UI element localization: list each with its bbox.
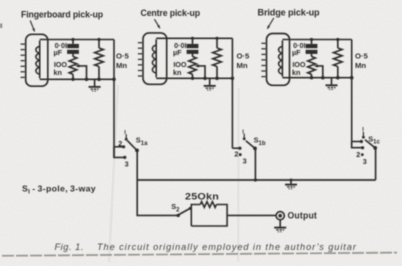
- svg-text:Mn: Mn: [116, 61, 127, 70]
- svg-text:2: 2: [118, 139, 122, 148]
- resistor 250k with bypass loop: [191, 202, 227, 226]
- svg-text:Fig. 1.: Fig. 1.: [55, 242, 84, 252]
- Centre pickup body (rounded rect): [143, 33, 167, 84]
- wire: top rail Centre: [156, 37, 232, 39]
- switch S2: [177, 207, 192, 217]
- svg-text:O·5: O·5: [116, 51, 130, 60]
- arrow to Bridge pickup: [267, 18, 274, 29]
- svg-text:2: 2: [234, 150, 238, 159]
- svg-text:Bridge pick-up: Bridge pick-up: [258, 7, 321, 17]
- potentiometer 100k (Fingerboard): [69, 54, 77, 80]
- svg-text:µF: µF: [54, 48, 63, 57]
- pot wiper arm (Bridge): [314, 64, 323, 78]
- svg-text:3: 3: [363, 157, 367, 166]
- junction: bottom rail to feed (Centre): [231, 77, 235, 81]
- potentiometer 100k (Centre): [189, 54, 197, 79]
- arrow to Centre pickup: [154, 19, 160, 28]
- svg-text:Fingerboard pick-up: Fingerboard pick-up: [21, 10, 104, 20]
- wire: top rail Fingerboard: [40, 39, 114, 41]
- svg-text:2: 2: [356, 150, 360, 159]
- switch S1c: [352, 132, 377, 150]
- svg-text:kn: kn: [173, 68, 181, 77]
- wire: top rail Bridge: [282, 39, 351, 41]
- svg-text:O·5: O·5: [237, 51, 251, 60]
- junction: bus ground tap: [290, 179, 293, 182]
- svg-text:kn: kn: [292, 68, 300, 77]
- capacitor 0.01uF (Fingerboard): [67, 40, 79, 54]
- wire: pole drop S1a: [136, 150, 138, 180]
- contact dot 2 (S1c): [361, 153, 364, 156]
- svg-text:µF: µF: [292, 48, 301, 57]
- junction: bottom rail to feed (Fingerboard): [112, 78, 116, 82]
- ground Centre: [204, 78, 216, 90]
- potentiometer 100k (Bridge): [308, 54, 316, 78]
- wire: vertical feed to switch (Bridge): [351, 40, 353, 148]
- scan smudge left edge: [0, 24, 2, 29]
- wire: pole drop S1c: [375, 148, 377, 180]
- junction: bottom rail to feed (Bridge): [350, 76, 354, 80]
- Fingerboard pickup body (rounded rect): [26, 34, 48, 86]
- Centre pickup pole pieces: [138, 43, 142, 76]
- svg-text:Mn: Mn: [237, 61, 248, 70]
- coil L (Centre): [152, 39, 156, 77]
- junction dots (Fingerboard): [71, 38, 100, 81]
- pot wiper arm (Fingerboard): [75, 64, 86, 79]
- wire: pole drop S1b: [254, 148, 256, 180]
- capacitor 0.01uF (Centre): [187, 38, 199, 54]
- svg-text:25Okn: 25Okn: [185, 192, 219, 202]
- resistor 0.5M (Fingerboard): [95, 40, 104, 80]
- arrow to Fingerboard pickup: [30, 21, 34, 32]
- junction: S1b pole to bus: [254, 178, 257, 181]
- ground bus: [285, 180, 297, 189]
- switch S1b: [232, 134, 257, 157]
- svg-text:The circuit originally employe: The circuit originally employed in the a…: [97, 242, 357, 252]
- Bridge pickup body (rounded rect): [267, 34, 290, 86]
- bottom rule: [2, 253, 397, 256]
- Fingerboard pickup pole pieces: [21, 44, 25, 77]
- ground Fingerboard: [89, 79, 101, 91]
- output jack: [276, 212, 284, 220]
- wire: bottom rail Centre: [156, 77, 232, 79]
- junction dots (Bridge): [310, 38, 340, 80]
- coil L (Fingerboard): [36, 41, 40, 79]
- svg-text:O·5: O·5: [355, 51, 369, 60]
- wire: bottom rail Bridge: [282, 77, 351, 79]
- pot wiper arm (Centre): [195, 64, 205, 78]
- Bridge pickup pole pieces: [261, 43, 265, 76]
- svg-text:Centre pick-up: Centre pick-up: [141, 8, 201, 18]
- svg-text:kn: kn: [54, 68, 62, 77]
- coil L (Bridge): [279, 41, 283, 77]
- resistor 0.5M (Centre): [213, 38, 222, 78]
- wire: down to S2: [137, 180, 177, 215]
- junction dots (Centre): [191, 37, 219, 80]
- svg-text:3: 3: [243, 157, 247, 166]
- switch S1a: [114, 134, 139, 159]
- svg-text:µF: µF: [173, 48, 182, 57]
- wire: to output: [227, 214, 276, 216]
- svg-text:Output: Output: [288, 211, 318, 221]
- capacitor 0.01uF (Bridge): [306, 40, 318, 54]
- resistor 0.5M (Bridge): [334, 40, 343, 78]
- ground Bridge: [326, 78, 338, 90]
- svg-text:3: 3: [125, 160, 129, 169]
- wire: bottom rail Fingerboard: [40, 78, 114, 80]
- wire: common bus: [137, 179, 375, 181]
- ground output: [274, 220, 286, 232]
- svg-text:Mn: Mn: [355, 61, 366, 70]
- wire: vertical feed to switch (Centre): [231, 38, 233, 148]
- wire: vertical feed to switch (Fingerboard): [113, 40, 115, 158]
